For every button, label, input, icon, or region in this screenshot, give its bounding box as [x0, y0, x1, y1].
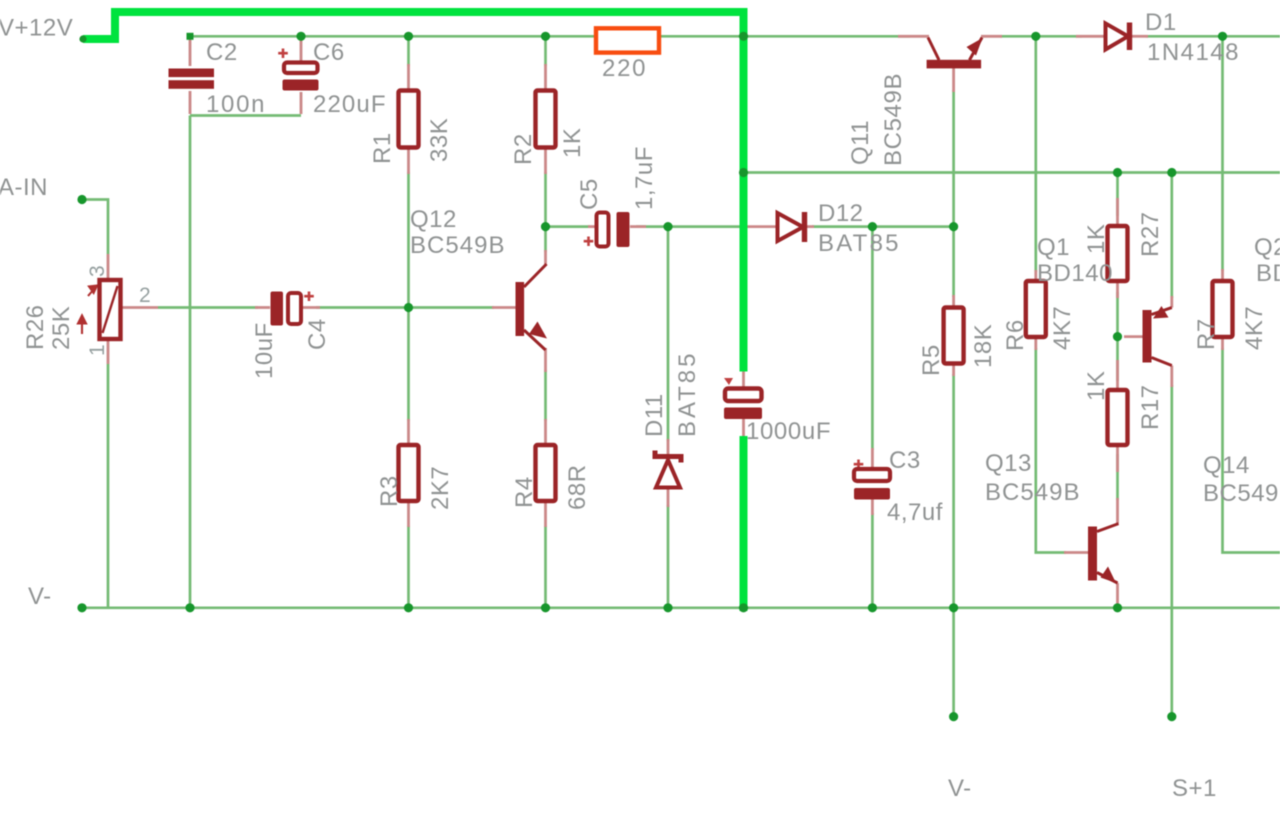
capacitor 1000uF plus mark — [724, 378, 733, 385]
wire pin lead Q12 emitter — [544, 348, 547, 372]
wire pin lead R27 bottom — [1116, 281, 1119, 298]
wire pin lead C2 bottom — [189, 91, 192, 114]
wire pin lead D11 top — [667, 439, 670, 454]
wire pin lead C3 top — [871, 448, 874, 469]
wire pin lead R5 top — [952, 295, 955, 308]
wire R17 top from Q1 base node — [1116, 337, 1119, 381]
transistor Q12 base bar — [516, 282, 525, 336]
potentiometer R26 25K body — [100, 280, 121, 339]
transistor Q1 collector slant — [1152, 358, 1172, 366]
svg-text:D11: D11 — [641, 393, 668, 437]
wire pin lead Q11 base — [952, 68, 955, 92]
wire pin lead D11 bottom — [667, 487, 670, 507]
wire pin lead R7 bottom — [1221, 337, 1224, 350]
svg-text:Q2: Q2 — [1254, 234, 1280, 261]
svg-text:C4: C4 — [304, 318, 331, 350]
wire pin lead Q13 emitter — [1116, 583, 1119, 605]
wire C2 vertical x=190 to V- and C2/C6 bottom link — [190, 116, 301, 608]
wire pin lead R2 bottom — [544, 148, 547, 174]
wire R27 top — [1116, 173, 1119, 217]
svg-text:1N4148: 1N4148 — [1147, 39, 1239, 66]
wire pin lead C5 right — [630, 225, 646, 228]
junction node A-IN stub dot — [77, 195, 86, 204]
svg-text:V-: V- — [948, 775, 972, 802]
wire Q11 base down to D12/R5 node — [952, 90, 955, 227]
diode D11 BAT85 schottky cathode bar — [655, 451, 681, 463]
junction D12/C3 node — [868, 222, 877, 231]
wire pin lead R2 top — [544, 64, 547, 90]
capacitor C6 220uF top plate outlined — [284, 63, 318, 74]
wire net V+ rail y=36 from D1 cathode to right edge — [1146, 35, 1280, 38]
junction R27 top on rail y=172 — [1113, 168, 1122, 177]
capacitor C2 100n top plate — [169, 69, 215, 78]
wire Q12 emitter down to R4 — [544, 370, 547, 421]
capacitor C5 1,7uF outlined plate — [597, 213, 609, 247]
svg-text:R27: R27 — [1137, 211, 1164, 257]
svg-text:D1: D1 — [1145, 9, 1177, 36]
junction thick wire meets V+ rail — [739, 32, 748, 41]
junction R4 on V- — [541, 603, 550, 612]
wire pin lead R6 top — [1034, 270, 1037, 281]
wire R3 top — [407, 308, 410, 422]
resistor R3 2K7 body — [399, 445, 419, 501]
wire R2 top — [544, 36, 547, 66]
wire R7 bottom down and right to Q14 base — [1223, 348, 1280, 553]
wire pin lead R4 top — [544, 419, 547, 445]
svg-text:R7: R7 — [1193, 318, 1220, 350]
wire pin lead R3 top — [407, 419, 410, 445]
wire pin lead Q1 emitter vertical — [1170, 296, 1173, 308]
junction thick wire meets rail y=172 — [739, 168, 748, 177]
capacitor C3 4,7uf bottom plate — [854, 488, 890, 500]
resistor R27 1K body — [1108, 226, 1128, 281]
wire pin lead Q11 collector horizontal — [898, 35, 929, 38]
svg-text:BAT85: BAT85 — [674, 353, 701, 437]
wire D11 top x=668 — [667, 227, 670, 441]
junction thick wire on V- — [739, 603, 748, 612]
capacitor C4 10uF solid plate — [271, 292, 284, 326]
wire pot R26 pin1 down to V- — [107, 364, 110, 608]
wire pin lead C2 top — [189, 38, 192, 66]
svg-text:V+12V: V+12V — [0, 15, 73, 42]
wire net V+12V thick wire lower section through 1000uF to V- — [740, 436, 748, 611]
wire net C5/D12 row y=226.6 middle part — [636, 225, 744, 228]
wire pin lead C4 right — [301, 306, 320, 309]
wire R5 top — [952, 227, 955, 297]
wire pin lead D12 cathode — [806, 225, 814, 228]
wire R6 top x=1035.8 from D1 node — [1034, 36, 1037, 272]
svg-text:R5: R5 — [918, 344, 945, 376]
wire pin lead C6 bottom — [300, 92, 303, 114]
svg-text:18K: 18K — [970, 324, 997, 368]
potentiometer R26 25K arrow lower vertical — [78, 316, 86, 335]
transistor Q1 emitter arrowhead — [1153, 306, 1169, 319]
capacitor C6 220uF plus mark — [278, 49, 288, 59]
svg-text:220uF: 220uF — [313, 91, 386, 118]
transistor Q11 base bar horizontal — [927, 60, 982, 69]
resistor R17 1K body — [1108, 390, 1128, 445]
svg-text:1: 1 — [86, 344, 109, 356]
svg-text:R6: R6 — [1002, 319, 1029, 351]
svg-text:BC549B: BC549B — [880, 73, 907, 166]
junction C3 on V- — [868, 603, 877, 612]
wire pin lead R4 bottom — [544, 501, 547, 527]
transistor Q13 emitter slant — [1097, 573, 1118, 584]
svg-text:4K7: 4K7 — [1049, 306, 1076, 350]
transistor Q1 base bar — [1143, 310, 1152, 363]
svg-text:4K7: 4K7 — [1241, 306, 1268, 350]
wire pin lead R1 top — [407, 64, 410, 90]
svg-text:3: 3 — [86, 265, 109, 277]
wire pin lead R17 bottom — [1116, 445, 1119, 472]
diode D12 BAT85 triangle — [778, 213, 804, 241]
capacitor C5 plus mark — [584, 237, 594, 247]
wire pin lead Q12 collector — [544, 250, 547, 264]
wire net V+ rail y=36 from C2 to Q11 collector — [190, 35, 910, 38]
junction S+1 terminal dot bottom — [1167, 712, 1176, 721]
junction Q1 emitter on rail y=172 — [1167, 168, 1176, 177]
wire net C5/D12 row y=226.6 left part — [546, 225, 591, 228]
wire pin lead D12 anode from thick wire — [746, 225, 777, 228]
svg-text:BAT85: BAT85 — [818, 230, 899, 257]
junction D12/R5/Q11 base node — [949, 222, 958, 231]
junction V- left end dot — [77, 603, 86, 612]
junction C5/D11 node — [663, 222, 672, 231]
wire input row y=307.5 from C4 to Q12 base — [316, 306, 494, 309]
wire pin lead R17 top — [1116, 360, 1119, 390]
wire pin lead Q1 collector vertical — [1170, 366, 1173, 388]
svg-text:R3: R3 — [376, 475, 403, 507]
transistor Q12 collector slant — [524, 264, 547, 287]
junction V- terminal dot bottom — [949, 712, 958, 721]
wire V- stub to terminal dot — [952, 608, 955, 717]
capacitor C3 4,7uf top plate outlined — [854, 469, 890, 481]
diode D12 BAT85 cathode bar — [802, 212, 807, 242]
wire pin lead Q12 base — [492, 306, 516, 309]
svg-text:Q1: Q1 — [1037, 234, 1070, 261]
wire A-IN stub — [82, 200, 108, 255]
wire pin lead R3 bottom — [407, 501, 410, 527]
junction R1 top on V+ rail — [404, 32, 413, 41]
svg-text:D12: D12 — [818, 200, 864, 227]
svg-text:BC549B: BC549B — [985, 479, 1080, 506]
wire net V+ rail y=36 from Q11 emitter to D1 anode — [1000, 35, 1082, 38]
capacitor C5 1,7uF solid plate — [617, 212, 630, 247]
transistor Q12 emitter arrowhead — [529, 322, 547, 339]
resistor R2 1K body — [536, 91, 556, 148]
wire Q1 collector down to S+1 terminal — [1170, 385, 1173, 717]
svg-text:4,7uf: 4,7uf — [887, 499, 943, 526]
potentiometer R26 diagonal stroke — [103, 286, 118, 333]
svg-text:C3: C3 — [889, 447, 921, 474]
diode D11 BAT85 triangle — [656, 460, 680, 488]
junction R1/R3/Q12 base/C4 node — [404, 303, 413, 312]
wire C3 top x=872 — [871, 227, 874, 450]
resistor 220 highlighted orange body — [596, 28, 659, 52]
wire input row y=307.5 from pot wiper to C4 — [158, 306, 258, 309]
svg-text:10uF: 10uF — [251, 322, 278, 379]
wire pin lead R27 top — [1116, 198, 1119, 226]
junction node V+12V stub dot — [79, 35, 86, 42]
transistor Q11 emitter arrowhead — [967, 38, 983, 56]
svg-text:C6: C6 — [313, 39, 345, 66]
junction D1 cathode / R7 node — [1218, 32, 1227, 41]
wire V- rail y=607.8 — [82, 606, 1280, 609]
wire pin lead pot wiper pin2 — [121, 306, 159, 309]
svg-text:33K: 33K — [426, 118, 453, 162]
transistor Q13 collector slant — [1097, 524, 1119, 532]
wire pin lead R7 top — [1221, 269, 1224, 281]
wire R1 bottom to node at y=307.5 — [407, 172, 410, 308]
wire R3 bottom to V- — [407, 526, 410, 608]
wire R7 top x=1224 from D1 cathode node — [1221, 36, 1224, 271]
junction C6 top on V+ rail — [296, 32, 305, 41]
svg-text:R4: R4 — [511, 476, 538, 508]
svg-text:S+1: S+1 — [1172, 775, 1217, 802]
svg-text:V-: V- — [28, 583, 52, 610]
junction Q13 emitter on V- — [1113, 603, 1122, 612]
wire C3 bottom to V- — [871, 513, 874, 608]
transistor Q1 emitter slant — [1152, 308, 1172, 315]
potentiometer R26 25K wiper arrow upper — [88, 286, 97, 297]
wire pin lead C5 left — [588, 225, 596, 228]
svg-text:BD139: BD139 — [1256, 260, 1280, 287]
transistor Q13 base bar — [1088, 527, 1097, 581]
wire R1 top — [407, 36, 410, 66]
wire pin lead C4 left — [255, 306, 270, 309]
wire pin lead Q13 collector vertical — [1116, 498, 1119, 524]
svg-text:R1: R1 — [369, 132, 396, 164]
svg-text:BC549B: BC549B — [1203, 480, 1280, 507]
junction C2 top pin square — [187, 33, 194, 40]
svg-text:2: 2 — [139, 284, 151, 307]
wire pin lead pot pin3 — [107, 254, 110, 279]
svg-text:1K: 1K — [1083, 371, 1110, 401]
capacitor C4 plus mark — [304, 292, 314, 302]
junction R3 on V- — [404, 603, 413, 612]
wire pin lead Q11 emitter horizontal — [981, 35, 1002, 38]
wire R4 bottom to V- — [544, 526, 547, 608]
svg-text:1000uF: 1000uF — [746, 418, 831, 445]
svg-text:100n: 100n — [206, 91, 265, 118]
capacitor 1000uF top plate outlined — [725, 389, 762, 402]
wire net V+12V thick highlighted wire — [83, 12, 744, 372]
wire net D12 cathode to R5 top y=226.6 — [812, 225, 954, 228]
transistor Q13 emitter arrowhead — [1101, 567, 1117, 584]
wire D11 bottom to V- — [667, 505, 670, 608]
svg-text:R26: R26 — [22, 304, 49, 350]
wire Q12 collector up to C5 node — [544, 227, 547, 252]
junction R27/R17/Q1 base node — [1113, 332, 1122, 341]
wire R6 bottom down and right to Q13 base — [1036, 348, 1066, 553]
wire net rail y=172 from thick V+ wire to right edge — [744, 171, 1280, 174]
wire R17 bottom to Q13 collector — [1116, 454, 1119, 500]
capacitor 1000uF bottom plate — [724, 408, 762, 420]
junction R2/C5/Q12 collector node — [541, 222, 550, 231]
wire pin lead C3 bottom — [871, 499, 874, 515]
wire pin lead R5 bottom — [952, 363, 955, 376]
transistor Q11 emitter slant — [970, 38, 983, 61]
svg-text:Q13: Q13 — [985, 450, 1032, 477]
svg-text:Q14: Q14 — [1203, 452, 1250, 479]
svg-text:1K: 1K — [1083, 224, 1110, 254]
transistor Q12 emitter slant with arrow — [524, 330, 546, 350]
diode D1 1N4148 cathode bar — [1127, 23, 1132, 51]
wire pin lead 1000uF top — [742, 370, 745, 389]
wire R2 bottom to C5 node — [544, 172, 547, 227]
svg-text:1,7uF: 1,7uF — [631, 146, 658, 210]
junction C2 line on V- — [185, 603, 194, 612]
resistor R7 4K7 body — [1213, 281, 1233, 337]
svg-text:R17: R17 — [1137, 384, 1164, 430]
capacitor C3 plus mark — [854, 460, 864, 470]
svg-text:R2: R2 — [510, 133, 537, 165]
diode D1 1N4148 triangle — [1106, 23, 1129, 49]
svg-text:220: 220 — [602, 55, 646, 82]
wire pin lead Q1 base — [1124, 335, 1143, 338]
svg-text:BD140: BD140 — [1037, 260, 1113, 287]
svg-text:A-IN: A-IN — [0, 174, 48, 201]
wire pin lead D1 anode — [1076, 35, 1105, 38]
svg-text:C2: C2 — [206, 39, 238, 66]
capacitor C6 220uF bottom plate — [283, 80, 319, 91]
wire R27 bottom to Q1 base node — [1116, 292, 1119, 337]
resistor R6 4K7 body — [1026, 281, 1046, 337]
svg-text:Q11: Q11 — [847, 120, 874, 165]
wire pin lead C6 top — [300, 38, 303, 61]
wire pin lead R1 bottom — [407, 148, 410, 174]
junction R2 top on V+ rail — [541, 32, 550, 41]
svg-text:25K: 25K — [48, 306, 75, 350]
svg-text:C5: C5 — [576, 178, 603, 210]
junction D11 on V- — [663, 603, 672, 612]
wire pin lead 1000uF bottom — [742, 418, 745, 437]
resistor R4 68R body — [536, 445, 556, 501]
resistor R5 18K body — [944, 308, 964, 364]
wire pin lead pot pin1 — [107, 340, 110, 364]
wire R5 bottom to V- — [952, 374, 955, 608]
capacitor C2 100n bottom plate — [169, 80, 215, 89]
capacitor C4 10uF outlined plate — [288, 293, 301, 324]
junction Q11 emitter / R6 / D1 node — [1031, 32, 1040, 41]
wire pin lead R6 bottom — [1034, 337, 1037, 350]
svg-text:Q12: Q12 — [410, 206, 457, 233]
junction R5 on V- — [949, 603, 958, 612]
transistor Q11 collector slant — [928, 38, 939, 61]
svg-text:68R: 68R — [564, 464, 591, 510]
wire Q1 emitter up to rail y=172 — [1170, 173, 1173, 299]
wire pin lead Q13 base — [1064, 551, 1088, 554]
svg-text:2K7: 2K7 — [427, 466, 454, 510]
resistor R1 33K body — [399, 91, 419, 148]
wire pin lead D1 cathode — [1132, 35, 1148, 38]
svg-text:BC549B: BC549B — [410, 232, 505, 259]
svg-text:1K: 1K — [559, 128, 586, 158]
